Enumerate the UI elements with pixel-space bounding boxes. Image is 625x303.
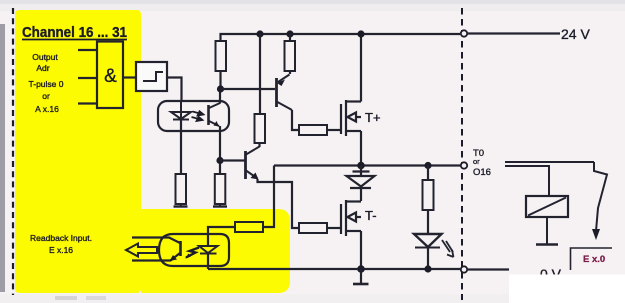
svg-text:or: or (42, 91, 50, 101)
wire LED1 cathode down to R8 (180, 120, 182, 175)
wire T0 to relay (505, 166, 549, 196)
wire T0 to switch (505, 161, 594, 163)
optocoupler U4 light bolt (186, 248, 199, 258)
svg-text:or: or (473, 157, 480, 166)
AND gate U1 (97, 42, 123, 109)
node junction 0V/LED (424, 265, 431, 272)
24V top rail (221, 34, 461, 41)
ground symbol relay (536, 243, 558, 246)
0V bottom rail (208, 268, 460, 270)
optocoupler U4 LED (199, 246, 218, 253)
optocoupler U3 body (158, 101, 229, 131)
wire U4 LED cathode to 0V (207, 254, 209, 270)
svg-text:E x.0: E x.0 (583, 254, 605, 265)
node junction rail R2 (286, 30, 293, 37)
terminal T0 (461, 162, 467, 168)
switch S1 (594, 162, 607, 231)
svg-text:Readback Input.: Readback Input. (30, 233, 92, 243)
resistor R8 below LED1 (176, 174, 187, 204)
optocoupler U4 body (159, 234, 229, 266)
wire input 3 to AND gate (78, 102, 97, 104)
resistor R1 (216, 41, 227, 71)
ground tick R8 (174, 205, 188, 207)
optocoupler U3 phototransistor (207, 105, 210, 125)
ground symbol under T- (360, 269, 362, 283)
wire Schmitt output to optocoupler U3 LED (167, 78, 182, 102)
terminal 0V (461, 266, 467, 272)
relay K1 (526, 196, 568, 217)
wire node to Q2 base (220, 159, 245, 161)
wire terminal to 24V label (467, 32, 560, 34)
resistor R3 (255, 114, 266, 143)
yellow highlight bottom band (141, 209, 290, 293)
wire T0 to R7 (427, 166, 429, 181)
resistor R9 below emitter node (215, 174, 226, 204)
node T0 line (274, 164, 460, 166)
module boundary dashed line right (461, 8, 463, 300)
LED D2 emission arrow (442, 240, 454, 257)
wire rail to R2 (289, 34, 291, 41)
wire AND output to Schmitt trigger (123, 76, 136, 78)
wire R7 to LED D2 (427, 210, 429, 234)
diode D1 (347, 166, 375, 202)
yellow highlight left column (15, 10, 141, 293)
readback arrow (126, 244, 157, 257)
wire phototransistor emitter down (219, 126, 221, 174)
wire node to PNP base (221, 88, 276, 90)
svg-text:&: & (104, 66, 117, 87)
faint bottom smudges (55, 296, 77, 300)
resistor R7 (423, 180, 434, 210)
resistor R2 (285, 41, 296, 71)
resistor R6 (299, 223, 327, 233)
svg-text:T-: T- (365, 208, 377, 223)
transistor Q2 NPN (244, 151, 247, 179)
module boundary dashed line left (12, 8, 14, 295)
LED D2 (414, 234, 442, 247)
resistor R5 (235, 222, 263, 232)
wire terminal 0V right (467, 268, 509, 270)
resistor R4 (299, 125, 327, 135)
wire T+ source to T0 node (360, 131, 362, 166)
wire R4 to T+ gate (327, 129, 341, 131)
wire phototransistor collector up (219, 89, 221, 104)
svg-text:Output: Output (32, 52, 58, 62)
wire relay to ground (546, 217, 548, 244)
optocoupler U3 LED (180, 101, 182, 120)
svg-text:T-pulse 0: T-pulse 0 (29, 79, 64, 89)
Schmitt trigger U2 (136, 62, 167, 91)
wire R1 to node (219, 71, 221, 89)
wire T- source to 0V rail (360, 231, 362, 269)
node junction 0V/T- (357, 265, 365, 273)
transistor Q1 PNP (275, 78, 278, 107)
node junction rail x260 (256, 30, 263, 37)
node junction rail T+ (357, 30, 364, 37)
wire T0 down to readback resistor (line A) (263, 166, 274, 228)
svg-text:E x.16: E x.16 (49, 245, 73, 255)
wire T+ drain to rail (360, 34, 362, 102)
wire input 1 to AND gate (78, 49, 97, 51)
MOSFET T+ (341, 100, 361, 136)
optocoupler U4 phototransistor (179, 241, 182, 256)
svg-text:Adr: Adr (36, 63, 49, 73)
svg-text:Channel 16 ... 31: Channel 16 ... 31 (22, 24, 127, 41)
MOSFET T- (341, 200, 361, 236)
node junction T0/LED branch (424, 162, 431, 169)
white patch bottom right (509, 275, 625, 303)
torn grey left edge (0, 24, 5, 292)
node junction T0/T+ (357, 162, 365, 170)
wire U4 LED anode to R5 (208, 227, 235, 246)
optocoupler U3 light arrows (192, 111, 204, 121)
svg-text:A x.16: A x.16 (35, 104, 59, 114)
svg-text:O16: O16 (473, 167, 491, 178)
svg-text:T+: T+ (365, 110, 381, 125)
input box E x.0 (571, 248, 613, 270)
node junction R1/base (217, 85, 224, 92)
wire input 2 to AND gate (78, 77, 97, 79)
wire LED D2 to 0V (427, 248, 429, 270)
wire Q2 emitter to T- gate resistor (258, 179, 300, 228)
wire Q1 collector to R4 (292, 110, 299, 130)
wire R6 to T- gate (327, 227, 341, 229)
wire rail down to R3 (259, 34, 261, 114)
ground tick R9 (213, 205, 227, 207)
terminal 24V (461, 30, 467, 36)
node junction base Q2 (216, 157, 223, 164)
svg-text:24 V: 24 V (561, 26, 590, 42)
